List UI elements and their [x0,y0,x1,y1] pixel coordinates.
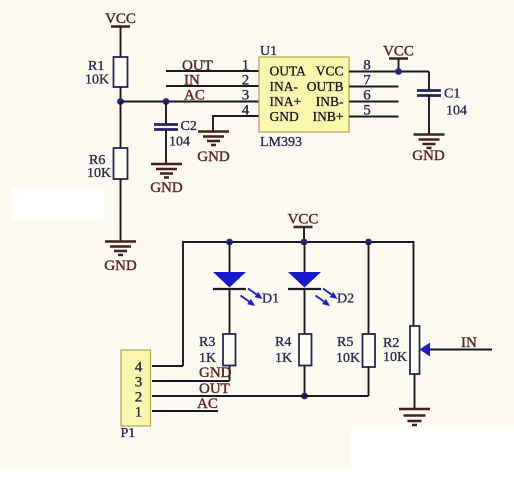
wire R2 to ground [414,374,416,409]
svg-text:AC: AC [184,88,205,104]
svg-text:VCC: VCC [383,44,414,60]
svg-text:U1: U1 [260,44,277,59]
svg-text:GND: GND [412,148,445,164]
resistor R3 1K [199,334,236,366]
svg-text:5: 5 [363,103,371,119]
ground below C2 [150,164,183,196]
svg-text:104: 104 [446,104,467,119]
ground at U1 pin4 [197,132,230,166]
svg-text:10K: 10K [87,166,111,181]
svg-text:VCC: VCC [105,11,136,27]
svg-text:INB-: INB- [316,94,344,109]
svg-text:IN: IN [184,73,200,89]
wire D2 to R4 [304,289,306,334]
wire node to U1 pin3 (AC net) [121,101,260,103]
resistor R6 10K [87,148,128,181]
power VCC (top-left) [105,11,136,27]
svg-text:1: 1 [242,58,250,74]
svg-text:LM393: LM393 [260,135,302,150]
junction VCC/pin8 [395,68,402,75]
LED D1 [213,272,279,307]
wire OUT net (P1 pin2) [152,395,369,397]
svg-text:GND: GND [197,149,230,165]
junction rail R5 [365,239,372,246]
svg-text:4: 4 [135,360,143,376]
svg-text:104: 104 [169,135,190,150]
svg-text:GND: GND [270,109,299,124]
junction rail D1 [226,239,233,246]
capacitor C1 104 [417,72,467,135]
resistor R5 10K [336,334,375,367]
svg-text:OUT: OUT [199,381,230,397]
svg-text:OUTA: OUTA [270,64,307,79]
wire P1 pin4 to rail [152,365,183,367]
svg-text:C2: C2 [181,119,197,134]
svg-text:GND: GND [199,365,232,381]
svg-text:7: 7 [363,73,371,89]
LED D2 [288,272,354,307]
op-amp U1 LM393 [259,44,349,150]
wire R4 to OUT net [304,366,306,397]
svg-text:R4: R4 [275,335,291,350]
svg-text:10K: 10K [85,73,109,88]
wire VCC3 stem [303,227,305,242]
svg-text:R2: R2 [383,336,399,351]
svg-text:VCC: VCC [316,64,344,79]
svg-text:8: 8 [363,58,371,74]
wire OUT net to U1 pin1 [166,70,259,72]
power VCC (bottom rail) [288,212,319,228]
svg-text:6: 6 [363,88,371,104]
ground below R6 [104,242,137,275]
svg-text:3: 3 [242,88,250,104]
potentiometer R2 10K [383,326,420,374]
wire rail to D1 [229,242,231,272]
svg-text:3: 3 [135,375,143,391]
wire U1 pin8 to C1 [349,71,429,73]
svg-text:R5: R5 [337,335,353,350]
svg-text:C1: C1 [444,87,460,102]
svg-text:IN: IN [461,335,477,351]
svg-text:D2: D2 [337,292,354,307]
node junction R1/R6/AC [117,98,124,105]
wire D1 to R3 [229,289,231,334]
svg-text:GND: GND [150,180,183,196]
resistor R4 1K [275,334,312,366]
white patch left [12,189,104,220]
svg-text:OUTB: OUTB [307,79,344,94]
wire AC net (P1 pin1) [152,410,218,412]
wire U1 pin5 [349,116,399,118]
svg-text:2: 2 [242,73,250,89]
wire VCC to R1 [120,27,122,58]
ground below R2 [399,409,430,425]
junction R4/OUT [301,393,308,400]
svg-text:1: 1 [135,405,143,421]
white strip bottom [0,469,514,480]
svg-text:10K: 10K [336,351,360,366]
svg-text:INA-: INA- [270,79,299,94]
wire U1 pin6 [349,101,399,103]
wire GND net (P1 pin3) [152,380,230,382]
svg-text:2: 2 [135,390,143,406]
svg-text:10K: 10K [383,350,407,365]
svg-text:R3: R3 [199,335,215,350]
power VCC (right of U1) [383,44,414,60]
wire rail to R5 [368,242,370,334]
wire R6 to ground [120,179,122,241]
wire R1 to node [120,87,122,102]
wire U1 pin4 to ground [213,116,259,131]
svg-text:1K: 1K [199,351,216,366]
capacitor C2 104 [154,102,197,164]
svg-text:VCC: VCC [288,212,319,228]
svg-text:1K: 1K [275,351,292,366]
wire R5 to OUT net [368,367,370,396]
wire rail to D2 [304,242,306,272]
wire R3 to GND net [229,366,231,382]
svg-text:GND: GND [104,258,137,274]
wire VCC2 stem [398,59,400,72]
junction C2 tap [163,98,170,105]
svg-text:INB+: INB+ [313,109,344,124]
wire U1 pin7 [349,86,399,88]
svg-text:D1: D1 [262,292,279,307]
wire IN net to U1 pin2 [166,85,259,87]
resistor R1 10K [85,57,128,88]
wire node to R6 [120,102,122,149]
wire VCC rail [183,242,414,366]
svg-text:P1: P1 [121,426,136,441]
white patch bottom-right [351,427,514,480]
svg-text:AC: AC [197,396,218,412]
wiper arrow and IN wire [420,335,493,357]
connector P1 [121,350,151,441]
svg-text:INA+: INA+ [270,94,302,109]
ground below C1 [412,135,445,165]
junction rail D2/VCC [301,239,308,246]
